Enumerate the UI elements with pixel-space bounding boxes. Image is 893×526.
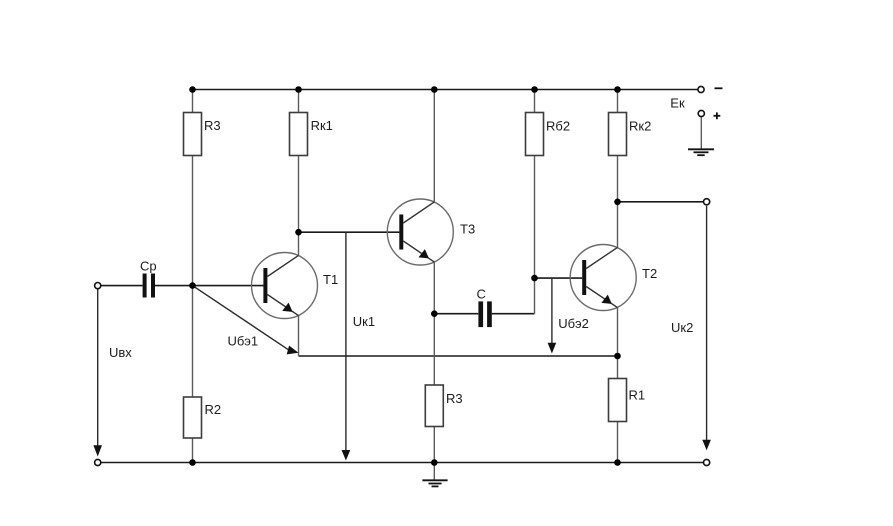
svg-text:Rк1: Rк1	[311, 118, 333, 133]
svg-text:R3: R3	[204, 118, 221, 133]
svg-text:R1: R1	[629, 388, 646, 403]
svg-text:Rб2: Rб2	[546, 119, 570, 134]
svg-text:Eк: Eк	[670, 96, 685, 111]
svg-text:T1: T1	[323, 272, 338, 287]
svg-text:R3: R3	[446, 391, 463, 406]
svg-text:T3: T3	[460, 222, 475, 237]
svg-text:Uбэ1: Uбэ1	[228, 334, 259, 349]
svg-text:R2: R2	[205, 402, 222, 417]
svg-text:T2: T2	[642, 266, 657, 281]
svg-text:Uбэ2: Uбэ2	[558, 316, 589, 331]
svg-text:C: C	[477, 287, 486, 302]
svg-text:Rк2: Rк2	[629, 119, 651, 134]
svg-text:Cp: Cp	[140, 259, 157, 274]
svg-text:Uвх: Uвх	[109, 345, 132, 360]
svg-text:Uк1: Uк1	[353, 314, 375, 329]
svg-text:Uк2: Uк2	[671, 320, 693, 335]
